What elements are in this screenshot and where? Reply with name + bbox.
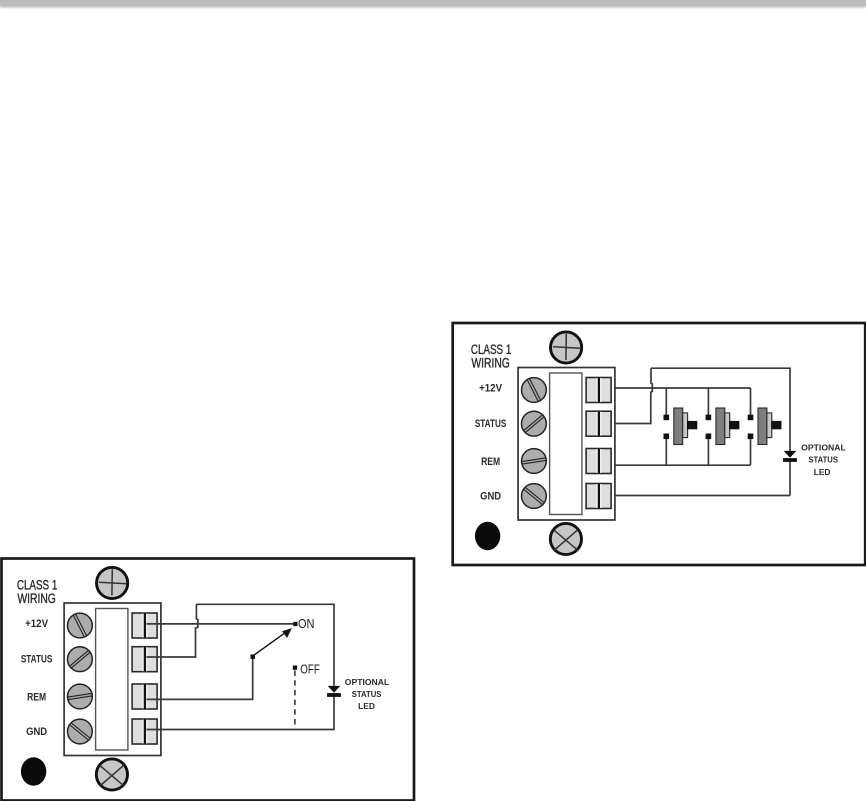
wire clamp connector GND B <box>132 719 157 744</box>
wire riser from switch S3 bottom A <box>750 439 752 465</box>
wire clamp connector STATUS B <box>132 647 157 672</box>
wire +12V to ON contact B <box>147 623 294 625</box>
terminal screw GND A <box>522 484 547 509</box>
mounting screw top (cross slot) B <box>97 567 128 598</box>
LED D1 cathode bar B <box>327 693 341 697</box>
svg-text:+12V: +12V <box>25 618 48 630</box>
switch ON contact B <box>293 622 297 626</box>
svg-text:STATUS: STATUS <box>21 654 53 666</box>
switch contact top S2 A <box>706 415 712 421</box>
wire LED cathode down A <box>789 462 791 496</box>
terminal screw +12V A <box>522 378 547 403</box>
wire +12V bus A <box>615 387 751 389</box>
switch contact bottom S3 A <box>748 434 754 440</box>
switch arm with arrowhead B <box>254 628 292 655</box>
terminal screw STATUS A <box>522 411 547 436</box>
svg-text:OPTIONAL: OPTIONAL <box>345 677 389 687</box>
terminal block body B <box>64 603 161 756</box>
svg-text:OFF: OFF <box>300 662 320 677</box>
wire clamp connector GND A <box>586 484 611 509</box>
pushbutton actuator bar S1 A <box>674 408 683 445</box>
wire top rail STATUS to LED anode A <box>651 368 790 451</box>
svg-text:WIRING: WIRING <box>17 591 56 606</box>
terminal screw GND B <box>68 719 93 744</box>
enclosure outline box B <box>2 559 415 801</box>
pushbutton plunger S1 A <box>683 413 688 438</box>
terminal block center slot A <box>550 373 582 515</box>
dashed line OFF position B <box>294 671 296 730</box>
terminal screw REM A <box>522 449 547 474</box>
pushbutton cap S2 A <box>729 421 739 429</box>
wire GND to LED cathode A <box>615 495 790 497</box>
wire clamp connector +12V B <box>132 613 157 638</box>
enclosure outline box A <box>453 323 866 565</box>
pushbutton actuator bar S2 A <box>716 408 725 445</box>
pushbutton plunger S3 A <box>767 413 772 438</box>
wire clamp connector REM B <box>132 684 157 709</box>
svg-text:STATUS: STATUS <box>475 418 507 430</box>
pushbutton cap S1 A <box>687 421 697 429</box>
terminal screw REM B <box>68 684 93 709</box>
svg-text:WIRING: WIRING <box>471 356 510 371</box>
page top gray bar <box>0 0 866 6</box>
svg-text:STATUS: STATUS <box>352 689 382 699</box>
wire STATUS with crossover jog A <box>615 368 653 423</box>
pushbutton actuator bar S3 A <box>758 408 767 445</box>
mounting screw bottom (X slot) A <box>550 523 581 554</box>
wire drop to switch S1 top A <box>665 388 667 415</box>
svg-text:GND: GND <box>26 726 47 738</box>
wire drop to switch S2 top A <box>707 388 709 415</box>
wire drop to switch S3 top A <box>750 388 752 415</box>
wire clamp connector STATUS A <box>586 411 611 436</box>
pushbutton cap S3 A <box>771 421 781 429</box>
LED D1 triangle B <box>328 686 341 693</box>
switch contact bottom S1 A <box>664 434 670 440</box>
wire clamp connector +12V A <box>586 378 611 403</box>
LED D1 cathode bar A <box>783 458 797 462</box>
wire top rail STATUS to LED anode B <box>196 604 334 686</box>
switch contact top S1 A <box>664 415 670 421</box>
terminal screw STATUS B <box>68 647 93 672</box>
svg-text:ON: ON <box>298 616 315 631</box>
svg-text:LED: LED <box>358 701 375 711</box>
mounting screw bottom (X slot) B <box>96 759 127 790</box>
svg-text:REM: REM <box>27 692 46 704</box>
svg-text:GND: GND <box>480 491 501 503</box>
wire riser from switch S1 bottom A <box>665 439 667 465</box>
svg-text:+12V: +12V <box>479 383 502 395</box>
switch contact bottom S2 A <box>706 434 712 440</box>
black mounting hole A <box>475 522 500 550</box>
terminal block body A <box>518 368 615 521</box>
wire GND to LED cathode B <box>147 696 335 729</box>
svg-text:OPTIONAL: OPTIONAL <box>801 443 846 453</box>
LED D1 triangle A <box>784 451 797 458</box>
terminal screw +12V B <box>68 613 93 638</box>
switch pivot contact B <box>251 654 256 659</box>
svg-text:LED: LED <box>814 467 831 477</box>
mounting screw top (cross slot) A <box>551 332 582 363</box>
svg-text:STATUS: STATUS <box>808 455 838 465</box>
wire clamp connector REM A <box>586 449 611 474</box>
svg-text:REM: REM <box>481 456 500 468</box>
pushbutton plunger S2 A <box>725 413 730 438</box>
switch contact top S3 A <box>748 415 754 421</box>
wire STATUS with crossover jog B <box>147 604 198 657</box>
wire riser from switch S2 bottom A <box>707 439 709 465</box>
wire REM bus A <box>615 464 751 466</box>
wire REM to switch pivot B <box>147 659 253 700</box>
terminal block center slot B <box>96 609 128 751</box>
black mounting hole B <box>21 757 46 785</box>
switch OFF contact B <box>293 666 297 670</box>
